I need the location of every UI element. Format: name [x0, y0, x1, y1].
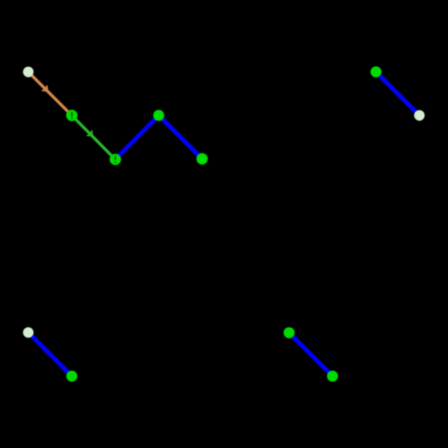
- edge E2 green N2-N3: [72, 115, 116, 159]
- node N11 green: [327, 371, 338, 382]
- edge E7 blue N10-N11: [289, 333, 332, 376]
- edge E5 blue N6-N7: [376, 72, 419, 116]
- node N1 pale: [23, 67, 34, 78]
- node N9 green: [66, 371, 77, 382]
- node N3 green: [110, 154, 121, 165]
- node N5 green: [196, 153, 207, 164]
- node N2 green: [66, 110, 77, 121]
- edge E3 blue N3-N4: [115, 115, 158, 159]
- node N10 green: [284, 327, 295, 338]
- mark M3 exclamation on N3: [114, 156, 116, 163]
- node N4 green: [153, 110, 164, 121]
- arrowhead A1 on edge E1: [42, 86, 48, 92]
- node N7 pale: [414, 110, 425, 121]
- arrowhead A2 on edge E2: [87, 131, 93, 137]
- node N6 green: [371, 66, 382, 77]
- node N8 pale: [23, 327, 34, 338]
- mark M2 exclamation on N2: [71, 112, 73, 119]
- edge E6 blue N8-N9: [28, 333, 72, 377]
- edge E4 blue N4-N5: [159, 115, 202, 158]
- edge E1 orange N1-N2: [28, 72, 72, 116]
